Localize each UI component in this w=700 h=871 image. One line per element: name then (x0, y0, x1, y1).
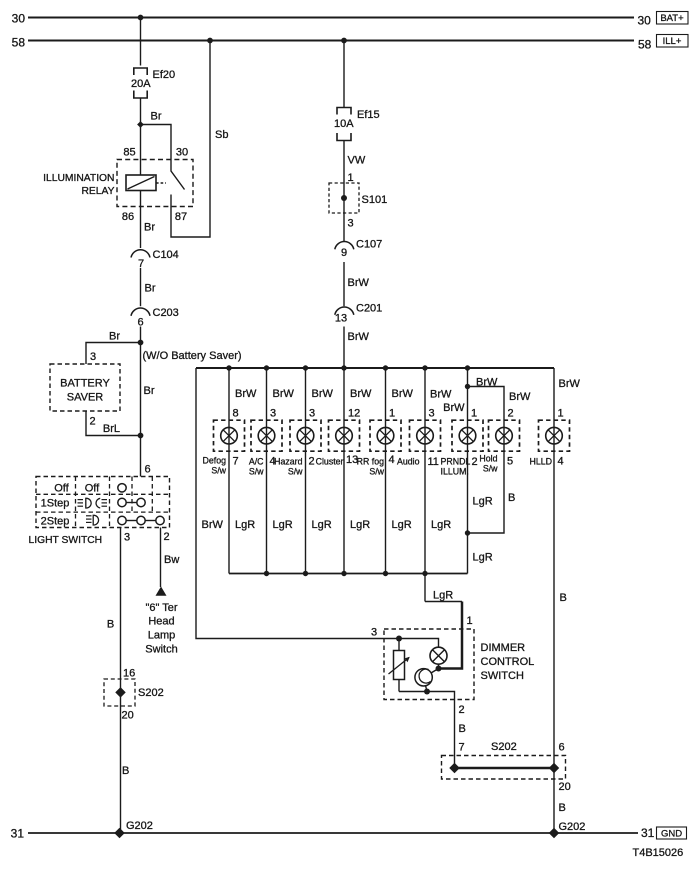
svg-text:S/w: S/w (249, 467, 264, 477)
svg-text:B: B (560, 592, 567, 604)
svg-text:Hazard: Hazard (274, 457, 302, 467)
svg-text:Lamp: Lamp (148, 630, 176, 642)
svg-text:B: B (508, 492, 515, 504)
svg-text:Off: Off (85, 483, 100, 495)
svg-text:Cluster: Cluster (316, 457, 344, 467)
svg-text:S/w: S/w (211, 466, 226, 476)
svg-text:Sb: Sb (215, 129, 228, 141)
svg-text:3: 3 (90, 351, 96, 363)
svg-text:C201: C201 (356, 303, 382, 315)
svg-text:1: 1 (558, 408, 564, 420)
svg-text:Br: Br (144, 222, 155, 234)
svg-text:Br: Br (145, 283, 156, 295)
svg-text:3: 3 (348, 218, 354, 230)
svg-text:BrW: BrW (430, 389, 452, 401)
svg-text:30: 30 (638, 14, 652, 28)
svg-text:3: 3 (429, 408, 435, 420)
svg-text:6: 6 (137, 317, 143, 329)
svg-text:BrW: BrW (348, 331, 370, 343)
svg-text:7: 7 (233, 456, 239, 468)
svg-text:LgR: LgR (473, 496, 493, 508)
svg-text:8: 8 (233, 408, 239, 420)
svg-text:1: 1 (471, 408, 477, 420)
svg-text:2: 2 (472, 456, 478, 468)
svg-text:Switch: Switch (145, 644, 177, 656)
svg-text:3: 3 (270, 408, 276, 420)
svg-text:1: 1 (389, 408, 395, 420)
svg-text:BrW: BrW (392, 388, 414, 400)
svg-text:LIGHT SWITCH: LIGHT SWITCH (29, 535, 103, 546)
svg-text:SAVER: SAVER (67, 392, 104, 404)
svg-text:31: 31 (641, 826, 655, 840)
svg-text:C203: C203 (153, 307, 179, 319)
svg-text:5: 5 (507, 456, 513, 468)
svg-text:12: 12 (348, 408, 360, 420)
svg-text:4: 4 (558, 456, 564, 468)
svg-text:20: 20 (559, 781, 571, 793)
svg-text:BrW: BrW (235, 388, 257, 400)
svg-text:G202: G202 (126, 820, 153, 832)
svg-text:BrW: BrW (273, 388, 295, 400)
svg-text:HLLD: HLLD (530, 457, 553, 467)
svg-text:58: 58 (12, 36, 26, 50)
svg-text:A/C: A/C (249, 457, 264, 467)
svg-text:LgR: LgR (273, 519, 293, 531)
svg-text:2: 2 (508, 408, 514, 420)
svg-text:6: 6 (559, 742, 565, 754)
svg-text:CONTROL: CONTROL (481, 656, 535, 668)
svg-text:BrW: BrW (202, 519, 224, 531)
svg-text:85: 85 (123, 147, 135, 159)
svg-text:1: 1 (467, 615, 473, 627)
svg-text:31: 31 (11, 827, 25, 841)
svg-text:1: 1 (348, 172, 354, 184)
svg-text:4: 4 (389, 454, 395, 466)
svg-text:BATTERY: BATTERY (60, 378, 110, 390)
svg-text:B: B (459, 723, 466, 735)
svg-text:S/w: S/w (369, 467, 384, 477)
svg-text:BrW: BrW (509, 391, 531, 403)
svg-text:RELAY: RELAY (81, 186, 114, 197)
svg-text:T4B15026: T4B15026 (633, 847, 684, 859)
svg-text:SWITCH: SWITCH (481, 670, 524, 682)
svg-text:GND: GND (661, 829, 682, 840)
svg-text:Br: Br (151, 111, 162, 123)
svg-text:Head: Head (148, 616, 174, 628)
svg-text:20A: 20A (131, 78, 151, 90)
svg-text:Hold: Hold (479, 454, 497, 464)
svg-text:Ef15: Ef15 (357, 109, 380, 121)
svg-text:"6" Ter: "6" Ter (145, 602, 177, 614)
svg-text:ILLUM.: ILLUM. (441, 467, 469, 477)
svg-text:LgR: LgR (312, 519, 332, 531)
svg-text:6: 6 (145, 464, 151, 476)
svg-text:13: 13 (335, 313, 347, 325)
svg-text:3: 3 (124, 532, 130, 544)
svg-text:B: B (107, 619, 114, 631)
svg-text:LgR: LgR (235, 519, 255, 531)
svg-text:S101: S101 (362, 194, 388, 206)
svg-text:BrW: BrW (559, 378, 581, 390)
svg-text:87: 87 (175, 211, 187, 223)
svg-text:Bw: Bw (164, 554, 179, 566)
svg-text:DIMMER: DIMMER (481, 642, 526, 654)
svg-text:RR fog: RR fog (357, 457, 384, 467)
svg-text:VW: VW (348, 155, 366, 167)
svg-text:PRNDL: PRNDL (441, 457, 471, 467)
svg-text:10A: 10A (334, 118, 354, 130)
svg-text:30: 30 (176, 147, 188, 159)
svg-text:S/w: S/w (288, 467, 303, 477)
svg-text:ILLUMINATION: ILLUMINATION (43, 173, 114, 184)
svg-text:C104: C104 (153, 249, 179, 261)
svg-text:11: 11 (428, 456, 439, 468)
svg-text:B: B (559, 802, 566, 814)
svg-text:20: 20 (122, 710, 134, 722)
svg-text:S/w: S/w (483, 464, 498, 474)
svg-text:G202: G202 (559, 821, 586, 833)
svg-text:Br: Br (144, 385, 155, 397)
svg-text:S202: S202 (491, 741, 517, 753)
svg-text:LgR: LgR (392, 519, 412, 531)
svg-text:3: 3 (371, 627, 377, 639)
svg-text:3: 3 (309, 408, 315, 420)
svg-text:Br: Br (109, 331, 120, 343)
svg-text:BrW: BrW (443, 402, 465, 414)
svg-text:58: 58 (638, 38, 652, 52)
svg-text:7: 7 (459, 742, 465, 754)
svg-text:BrL: BrL (103, 423, 120, 435)
svg-text:B: B (122, 765, 129, 777)
svg-text:2: 2 (459, 704, 465, 716)
svg-text:2: 2 (90, 416, 96, 428)
svg-text:Ef20: Ef20 (153, 69, 176, 81)
svg-text:7: 7 (138, 258, 144, 270)
svg-text:LgR: LgR (350, 519, 370, 531)
svg-text:Defog: Defog (203, 456, 227, 466)
svg-text:2: 2 (309, 456, 315, 468)
svg-text:86: 86 (122, 211, 134, 223)
svg-text:BrW: BrW (312, 388, 334, 400)
svg-text:Off: Off (54, 483, 69, 495)
svg-text:C107: C107 (356, 239, 382, 251)
svg-text:(W/O Battery Saver): (W/O Battery Saver) (143, 350, 242, 362)
svg-text:30: 30 (12, 12, 26, 26)
svg-text:LgR: LgR (473, 552, 493, 564)
svg-text:2Step: 2Step (41, 516, 70, 528)
svg-text:BrW: BrW (350, 388, 372, 400)
svg-text:BrW: BrW (348, 277, 370, 289)
svg-text:ILL+: ILL+ (663, 36, 682, 47)
svg-text:2: 2 (164, 531, 170, 543)
svg-text:9: 9 (341, 247, 347, 259)
svg-text:LgR: LgR (431, 519, 451, 531)
svg-text:1Step: 1Step (41, 498, 70, 510)
svg-text:BAT+: BAT+ (660, 13, 684, 24)
svg-text:Audio: Audio (397, 457, 420, 467)
svg-text:16: 16 (123, 668, 135, 680)
svg-text:BrW: BrW (476, 377, 498, 389)
svg-text:S202: S202 (138, 687, 164, 699)
svg-text:LgR: LgR (433, 590, 453, 602)
